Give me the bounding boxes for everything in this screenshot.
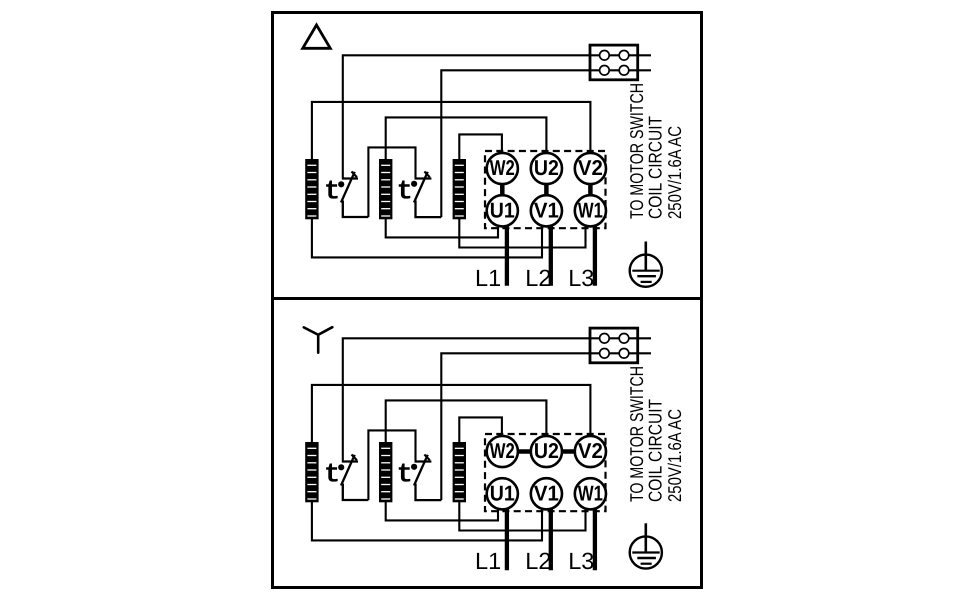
terminal W1, star panel bbox=[575, 478, 606, 509]
wire: mains feeder L1 (thick), delta panel bbox=[505, 224, 509, 286]
svg-text:COIL CIRCUIT: COIL CIRCUIT bbox=[645, 116, 666, 219]
annotation: TO MOTOR SWITCH COIL CIRCUIT 250V/1.6A AC, star panel bbox=[626, 366, 685, 502]
wire: mains feeder L2 (thick), delta panel bbox=[549, 224, 553, 286]
terminal board outline (dashed), delta panel bbox=[485, 151, 606, 228]
thermal switch t2 tick, delta panel bbox=[424, 172, 429, 178]
wire: winding B top to terminal U2, delta panel bbox=[386, 117, 547, 160]
svg-text:L1: L1 bbox=[475, 548, 501, 574]
terminal U2, star panel bbox=[531, 436, 562, 467]
thermal switch t1 blade, star panel bbox=[341, 455, 355, 486]
svg-text:V2: V2 bbox=[578, 439, 603, 463]
delta link V2-W1 bbox=[588, 183, 593, 198]
winding C (motor phase coil), delta panel bbox=[453, 159, 466, 219]
thermal switch t2 contact bar, delta panel bbox=[415, 177, 432, 179]
svg-text:t: t bbox=[324, 461, 340, 491]
svg-text:V1: V1 bbox=[534, 481, 559, 505]
svg-text:U1: U1 bbox=[490, 481, 515, 505]
svg-text:COIL CIRCUIT: COIL CIRCUIT bbox=[645, 399, 666, 502]
svg-text:W1: W1 bbox=[578, 198, 603, 222]
wire: winding C bottom to terminal W1, star panel bbox=[459, 501, 585, 531]
terminal W1, delta panel bbox=[575, 195, 606, 226]
winding B (motor phase coil), star panel bbox=[379, 442, 392, 502]
thermal switch t1 tick, star panel bbox=[352, 455, 357, 461]
connector block (to motor switch coil circuit), star panel bbox=[590, 328, 638, 363]
annotation: TO MOTOR SWITCH COIL CIRCUIT 250V/1.6A AC, delta panel bbox=[626, 83, 685, 219]
terminal V1, star panel bbox=[531, 478, 562, 509]
wire: winding C top to terminal W2, delta panel bbox=[459, 134, 502, 160]
thermal switch t2 dot, delta panel bbox=[411, 181, 417, 187]
thermal switch t1 dot, delta panel bbox=[338, 181, 344, 187]
winding A (motor phase coil), delta panel bbox=[305, 159, 318, 219]
thermal switch t1 blade, delta panel bbox=[341, 172, 355, 203]
wire: bridge t1 bottom to t2 top, delta panel bbox=[368, 147, 415, 217]
delta link W2-U1 bbox=[500, 183, 505, 198]
star panel frame bbox=[273, 299, 702, 588]
wire: winding A top to terminal V2, star panel bbox=[312, 385, 591, 443]
ground (protective earth), delta panel bbox=[630, 242, 662, 287]
thermal switch t2 blade, star panel bbox=[414, 455, 428, 486]
wire: mains feeder L3 (thick), delta panel bbox=[593, 224, 597, 286]
wire: winding B bottom to terminal U1, star panel bbox=[386, 501, 498, 520]
svg-text:U2: U2 bbox=[534, 156, 559, 180]
star link W2-U2 bbox=[515, 449, 533, 454]
svg-text:t: t bbox=[397, 178, 413, 208]
terminal W2, delta panel bbox=[487, 153, 518, 184]
svg-text:L3: L3 bbox=[568, 265, 594, 291]
wire: winding A bottom to terminal V1, star panel bbox=[312, 501, 542, 540]
svg-text:L2: L2 bbox=[525, 265, 551, 291]
terminal V2, star panel bbox=[575, 436, 606, 467]
svg-text:L2: L2 bbox=[525, 548, 551, 574]
wire: t2 pivot down + across, delta panel bbox=[416, 201, 442, 218]
svg-text:250V/1.6A AC: 250V/1.6A AC bbox=[664, 126, 685, 219]
wire: mains feeder L2 (thick), star panel bbox=[549, 507, 553, 570]
delta link U2-V1 bbox=[544, 183, 549, 198]
delta connection symbol bbox=[303, 25, 331, 48]
wire: coil-circuit bottom feed (switch t2 to connector), star panel bbox=[441, 353, 651, 500]
terminal V1, delta panel bbox=[531, 195, 562, 226]
winding B (motor phase coil), delta panel bbox=[379, 159, 392, 219]
star link U2-V2 bbox=[559, 449, 577, 454]
svg-text:t: t bbox=[324, 178, 340, 208]
wire: winding C bottom to terminal W1, delta panel bbox=[459, 218, 585, 248]
thermal switch t1 contact bar, delta panel bbox=[342, 177, 358, 179]
thermal switch t2 contact bar, star panel bbox=[415, 460, 432, 462]
ground (protective earth), star panel bbox=[630, 523, 662, 568]
terminal U1, delta panel bbox=[487, 195, 518, 226]
terminal U2, delta panel bbox=[531, 153, 562, 184]
wire: t1 pivot down + across, delta panel bbox=[343, 201, 369, 218]
wire: coil-circuit top feed (switch t1 to connector), star panel bbox=[343, 338, 651, 460]
wire: t2 pivot down + across, star panel bbox=[416, 484, 442, 501]
wire: coil-circuit top feed (switch t1 to connector), delta panel bbox=[343, 55, 651, 177]
svg-text:W2: W2 bbox=[490, 439, 515, 463]
delta panel frame bbox=[273, 13, 702, 299]
wire: winding A bottom to terminal V1, delta panel bbox=[312, 218, 542, 257]
wire: mains feeder L1 (thick), star panel bbox=[505, 507, 509, 570]
wire: winding B top to terminal U2, star panel bbox=[386, 400, 547, 443]
thermal switch t2 tick, star panel bbox=[424, 455, 429, 461]
svg-text:250V/1.6A AC: 250V/1.6A AC bbox=[664, 409, 685, 502]
wire: bridge t1 bottom to t2 top, star panel bbox=[368, 430, 415, 500]
winding C (motor phase coil), star panel bbox=[453, 442, 466, 502]
wire: winding A top to terminal V2, delta panel bbox=[312, 102, 591, 160]
terminal W2, star panel bbox=[487, 436, 518, 467]
svg-text:W1: W1 bbox=[578, 481, 603, 505]
wire: coil-circuit bottom feed (switch t2 to connector), delta panel bbox=[441, 70, 651, 217]
svg-text:U2: U2 bbox=[534, 439, 559, 463]
terminal board outline (dashed), star panel bbox=[485, 434, 606, 511]
connector block (to motor switch coil circuit), delta panel bbox=[590, 45, 638, 80]
svg-text:U1: U1 bbox=[490, 198, 515, 222]
svg-text:W2: W2 bbox=[490, 156, 515, 180]
thermal switch t2 dot, star panel bbox=[411, 464, 417, 470]
wire: mains feeder L3 (thick), star panel bbox=[593, 507, 597, 570]
thermal switch t1 dot, star panel bbox=[338, 464, 344, 470]
svg-text:L1: L1 bbox=[475, 265, 501, 291]
wire: winding B bottom to terminal U1, delta panel bbox=[386, 218, 498, 237]
svg-text:L3: L3 bbox=[568, 548, 594, 574]
thermal switch t1 tick, delta panel bbox=[352, 172, 357, 178]
terminal U1, star panel bbox=[487, 478, 518, 509]
svg-text:V1: V1 bbox=[534, 198, 559, 222]
thermal switch t2 blade, delta panel bbox=[414, 172, 428, 203]
star connection symbol bbox=[304, 327, 333, 352]
wire: t1 pivot down + across, star panel bbox=[343, 484, 369, 501]
svg-text:t: t bbox=[397, 461, 413, 491]
terminal V2, delta panel bbox=[575, 153, 606, 184]
winding A (motor phase coil), star panel bbox=[305, 442, 318, 502]
wire: winding C top to terminal W2, star panel bbox=[459, 417, 502, 443]
svg-text:V2: V2 bbox=[578, 156, 603, 180]
thermal switch t1 contact bar, star panel bbox=[342, 460, 358, 462]
